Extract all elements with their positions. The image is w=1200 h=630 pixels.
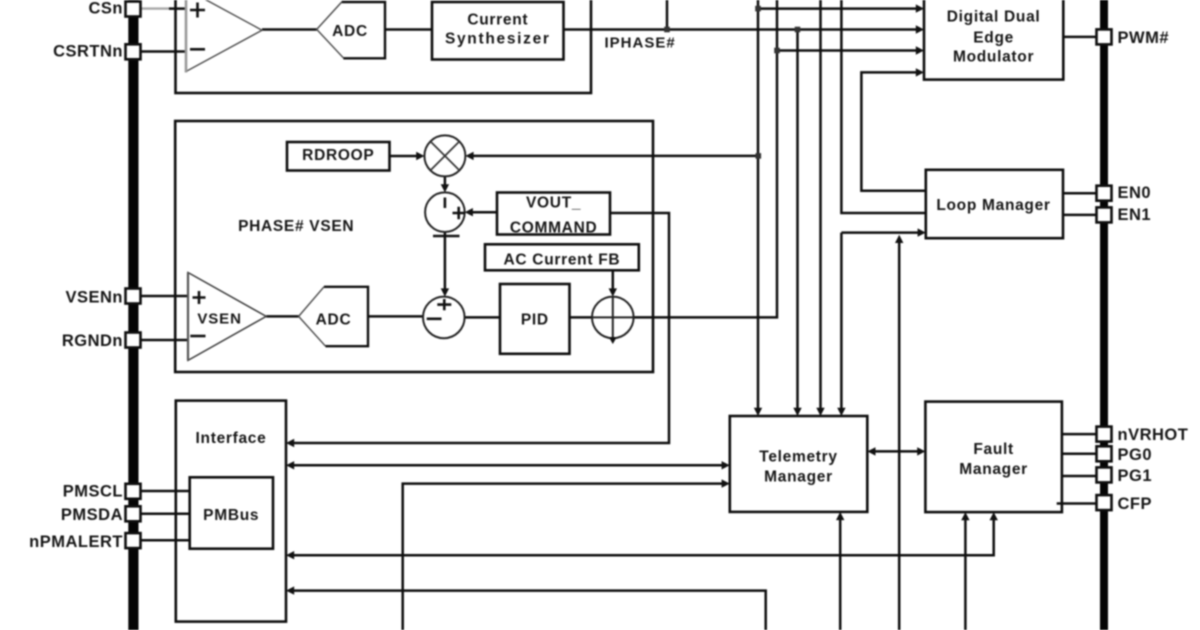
svg-text:Edge: Edge [973, 30, 1014, 47]
svg-text:VOUT_: VOUT_ [526, 195, 581, 212]
svg-text:Digital Dual: Digital Dual [947, 8, 1041, 25]
svg-text:nVRHOT: nVRHOT [1118, 426, 1189, 444]
svg-text:EN1: EN1 [1118, 206, 1152, 224]
svg-text:PHASE# VSEN: PHASE# VSEN [238, 218, 354, 235]
svg-text:EN0: EN0 [1118, 184, 1152, 202]
svg-text:PMSDA: PMSDA [61, 506, 123, 524]
svg-text:PMSCL: PMSCL [63, 483, 123, 501]
svg-text:VSENn: VSENn [65, 289, 123, 307]
svg-text:COMMAND: COMMAND [510, 220, 598, 237]
svg-text:CSRTNn: CSRTNn [53, 43, 123, 61]
svg-text:PG0: PG0 [1118, 446, 1153, 464]
svg-text:Modulator: Modulator [953, 48, 1034, 65]
svg-text:CFP: CFP [1118, 495, 1153, 513]
svg-text:Current: Current [467, 12, 528, 29]
svg-text:PWM#: PWM# [1118, 29, 1170, 47]
svg-text:CSn: CSn [89, 0, 124, 18]
svg-text:nPMALERT: nPMALERT [29, 533, 123, 551]
svg-text:Synthesizer: Synthesizer [445, 31, 551, 48]
svg-text:Interface: Interface [196, 430, 267, 447]
svg-text:Fault: Fault [973, 441, 1014, 458]
svg-text:ADC: ADC [332, 23, 368, 40]
svg-text:PMBus: PMBus [203, 507, 259, 524]
svg-text:RDROOP: RDROOP [302, 147, 374, 164]
svg-text:AC Current FB: AC Current FB [504, 252, 621, 269]
svg-text:PID: PID [521, 312, 549, 329]
svg-text:Manager: Manager [959, 461, 1028, 478]
svg-text:Manager: Manager [764, 469, 833, 486]
svg-text:ADC: ADC [316, 312, 352, 329]
svg-text:Telemetry: Telemetry [759, 449, 837, 466]
svg-text:IPHASE#: IPHASE# [605, 35, 676, 52]
svg-text:RGNDn: RGNDn [62, 332, 123, 350]
svg-text:Loop Manager: Loop Manager [936, 197, 1050, 214]
svg-text:VSEN: VSEN [197, 311, 241, 328]
svg-text:PG1: PG1 [1118, 467, 1153, 485]
